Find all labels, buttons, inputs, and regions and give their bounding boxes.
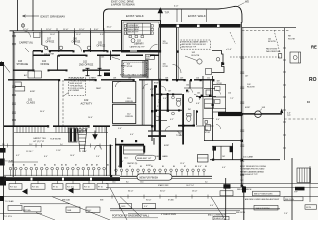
bar circle <box>255 111 262 118</box>
receptacle row 2 stems <box>116 172 204 176</box>
wall stub x154 <box>153 138 155 145</box>
svg-text:9'-0": 9'-0" <box>100 34 104 36</box>
svg-text:EXIST: EXIST <box>164 145 170 147</box>
svg-text:12'-4": 12'-4" <box>82 151 87 153</box>
room 114 west wall heavy <box>109 145 111 176</box>
svg-text:B9: B9 <box>205 166 207 168</box>
hall y88 <box>184 87 203 89</box>
grade line 1 <box>106 183 318 185</box>
svg-text:3'-6": 3'-6" <box>163 98 167 100</box>
door arcs center <box>161 86 166 91</box>
tapered ladder chute <box>78 128 88 152</box>
svg-text:SEE 2/A4: SEE 2/A4 <box>62 198 70 201</box>
wc hall y94 <box>156 93 182 95</box>
svg-text:6'-2": 6'-2" <box>16 155 20 157</box>
down arrow <box>93 131 97 140</box>
svg-text:A5: A5 <box>61 163 63 166</box>
east fence line <box>309 166 311 202</box>
toilet 2 <box>187 114 191 116</box>
svg-text:ACTIVITY: ACTIVITY <box>81 101 93 105</box>
svg-text:7'-0": 7'-0" <box>120 161 124 163</box>
closet box <box>124 146 145 154</box>
svg-text:PT 10: PT 10 <box>98 187 103 189</box>
svg-text:3-4: 3-4 <box>60 144 63 146</box>
svg-text:105: 105 <box>146 78 149 80</box>
provide/install dashed note box <box>69 78 86 96</box>
lower boxes left <box>8 206 22 211</box>
center block room 112 <box>113 104 136 123</box>
dashed line right of bar <box>284 118 316 120</box>
dashed leaders top right <box>230 32 236 44</box>
svg-text:OFFICE: OFFICE <box>72 41 81 44</box>
svg-text:B1: B1 <box>118 166 120 168</box>
to slab underline <box>8 161 38 163</box>
svg-text:REPAIR DAMAGED AREAS: REPAIR DAMAGED AREAS <box>240 170 265 173</box>
svg-text:6'-0": 6'-0" <box>130 134 134 136</box>
svg-text:A5: A5 <box>54 163 56 166</box>
svg-text:107: 107 <box>168 90 171 92</box>
svg-text:102: 102 <box>84 98 89 102</box>
door arc room147 <box>25 31 31 37</box>
svg-text:2'-6": 2'-6" <box>157 106 161 108</box>
svg-text:4" SLAB W/ WWM: 4" SLAB W/ WWM <box>161 213 176 216</box>
svg-text:B6: B6 <box>173 166 175 168</box>
hatched end of bar <box>218 112 242 116</box>
vertical wall x177 <box>176 28 178 80</box>
svg-text:105: 105 <box>101 57 104 59</box>
door leaf marks <box>25 48 29 52</box>
svg-text:SIM 104A: SIM 104A <box>23 209 32 212</box>
dim line full <box>0 196 318 198</box>
short tick wall top walk <box>206 10 208 23</box>
I-beam column 1 <box>86 68 90 75</box>
svg-text:± 5'-0": ± 5'-0" <box>226 49 232 51</box>
svg-text:CARPET (N): CARPET (N) <box>19 42 33 45</box>
svg-text:A9: A9 <box>96 163 98 166</box>
svg-text:6-0: 6-0 <box>205 181 208 183</box>
svg-text:B4: B4 <box>151 166 153 168</box>
room 114 north wall heavy <box>115 144 144 146</box>
svg-text:TABLES TYP: TABLES TYP <box>128 30 140 33</box>
mid bottom boxes <box>120 203 132 208</box>
room 114 inner bar 1 <box>119 146 122 168</box>
jamb blocks <box>159 83 161 85</box>
svg-text:SEE PLAN: SEE PLAN <box>285 198 294 201</box>
bottom-right vertical marker <box>243 186 245 220</box>
inside room outline near right wall <box>212 51 224 73</box>
svg-text:SEE NOTE: SEE NOTE <box>236 212 246 214</box>
corridor top wall heavy <box>33 50 159 52</box>
svg-text:W/ OWNER: W/ OWNER <box>70 90 80 92</box>
svg-text:T.O. FTG: T.O. FTG <box>4 216 12 218</box>
property line lower <box>291 158 293 220</box>
svg-text:EXIST. WALK: EXIST. WALK <box>126 14 144 18</box>
svg-text:EXIST RESILIENT FLOORING: EXIST RESILIENT FLOORING <box>240 166 267 168</box>
small box right room <box>206 69 212 75</box>
wall y159.7 <box>210 159 280 161</box>
svg-text:ROUTE: ROUTE <box>288 38 296 40</box>
svg-text:102: 102 <box>222 156 225 158</box>
svg-text:5'-0": 5'-0" <box>186 91 190 93</box>
svg-text:CARPET TILE: CARPET TILE <box>33 137 46 140</box>
heavy top wall right wing <box>159 24 241 28</box>
window band below south wall <box>14 132 108 134</box>
library door arc <box>150 44 158 52</box>
svg-text:EXIST. WALK: EXIST. WALK <box>188 14 206 18</box>
window ticks left wall upper <box>12 36 16 45</box>
svg-text:4x4 POST: 4x4 POST <box>110 55 119 57</box>
left margin blobs <box>0 62 4 66</box>
partition x203 <box>202 76 204 97</box>
svg-text:EXIST: EXIST <box>146 165 152 167</box>
wc wall x183 heavy <box>182 94 184 131</box>
svg-text:OFFICE: OFFICE <box>41 63 50 66</box>
left wing top wall (double) <box>10 30 122 32</box>
door bubbles corridor <box>44 46 48 50</box>
svg-text:EXIST. DRIVEWAY: EXIST. DRIVEWAY <box>41 14 66 18</box>
svg-text:PLT 10: PLT 10 <box>84 187 90 189</box>
svg-text:A8: A8 <box>86 163 88 166</box>
svg-text:11'-6": 11'-6" <box>63 29 69 31</box>
south wall of classrooms heavy <box>4 125 110 127</box>
svg-text:105D: 105D <box>121 206 126 208</box>
svg-text:101 LANE: 101 LANE <box>243 156 254 159</box>
svg-text:PORTION OF BASEMENT WALL: PORTION OF BASEMENT WALL <box>112 215 150 218</box>
svg-text:90'-0": 90'-0" <box>146 199 152 201</box>
svg-text:34'-0": 34'-0" <box>128 190 134 192</box>
svg-text:RESILIENT LVT: RESILIENT LVT <box>137 158 152 160</box>
svg-text:SIM: SIM <box>100 199 104 201</box>
svg-text:A4: A4 <box>44 163 46 166</box>
svg-text:3'-6": 3'-6" <box>198 166 202 168</box>
room 114 inner bar 2 <box>143 146 145 153</box>
leader 103 <box>259 109 262 112</box>
svg-text:4'-0": 4'-0" <box>150 89 154 91</box>
driveway line right <box>32 0 34 31</box>
svg-text:12'-4": 12'-4" <box>147 69 152 71</box>
svg-text:12'-0": 12'-0" <box>23 29 29 31</box>
right wing inner partitions <box>212 76 214 141</box>
svg-text:CLASS: CLASS <box>27 101 36 105</box>
left margin border <box>2 64 4 220</box>
svg-text:4'-0": 4'-0" <box>222 167 226 169</box>
grid ticks on top wall <box>41 28 43 31</box>
svg-text:RO: RO <box>309 77 317 83</box>
door arc office107 <box>42 45 49 52</box>
svg-text:EXIST. CONC. DRIVE: EXIST. CONC. DRIVE <box>111 2 134 4</box>
svg-text:NOTE: NOTE <box>306 207 312 209</box>
small lane box right <box>198 155 209 163</box>
svg-text:LVT (P) TYP: LVT (P) TYP <box>33 141 45 143</box>
svg-text:12'-0": 12'-0" <box>180 163 185 165</box>
svg-text:A2: A2 <box>23 163 25 166</box>
room 114 second west wall <box>115 138 117 176</box>
left exterior wall (double) <box>12 31 14 177</box>
wall y131 <box>148 130 183 132</box>
library chairs <box>124 25 126 28</box>
top wall thin continuation to right edge <box>242 27 296 29</box>
svg-text:6'-8": 6'-8" <box>196 103 200 105</box>
svg-text:12'-0": 12'-0" <box>79 29 85 31</box>
svg-text:SCALE 1/8: SCALE 1/8 <box>214 217 223 220</box>
interior partitions of top-left rooms <box>41 31 43 45</box>
svg-text:ROUTE: ROUTE <box>192 55 200 57</box>
svg-text:4'-0": 4'-0" <box>174 6 179 8</box>
svg-text:OFFICE: OFFICE <box>46 41 55 44</box>
svg-text:STOR: STOR <box>217 83 223 85</box>
svg-text:THROUGHOUT TYP: THROUGHOUT TYP <box>240 174 258 176</box>
svg-text:STOR: STOR <box>127 66 133 68</box>
receptacle row 1 circles <box>9 167 105 170</box>
window ticks left wall lower <box>12 86 16 121</box>
svg-text:PLT 107: PLT 107 <box>67 187 74 189</box>
svg-text:16'-0": 16'-0" <box>107 27 112 29</box>
svg-text:5'-4": 5'-4" <box>96 156 100 158</box>
svg-text:SEE A FT MECH: SEE A FT MECH <box>237 188 252 191</box>
svg-text:105: 105 <box>197 92 200 94</box>
svg-text:16'-0": 16'-0" <box>192 190 198 192</box>
svg-text:2'-6": 2'-6" <box>284 213 288 215</box>
svg-text:EXIST: EXIST <box>154 83 160 85</box>
lower wall y70 heavy <box>13 69 110 71</box>
svg-text:108: 108 <box>113 78 116 80</box>
new flooring bubble <box>137 174 172 180</box>
mid vertical marker <box>225 178 227 220</box>
walk outer edge with rounded corners <box>104 6 243 31</box>
section cut bar right <box>218 113 282 115</box>
svg-text:104: 104 <box>186 85 189 87</box>
svg-text:A6: A6 <box>65 163 67 166</box>
svg-text:B3: B3 <box>140 166 142 168</box>
svg-text:2-6: 2-6 <box>2 144 5 146</box>
striped box lower right <box>297 168 311 183</box>
driveway monument circle <box>21 24 24 27</box>
left margin arrowhead <box>22 189 28 195</box>
toilet 1 <box>176 99 180 101</box>
extra center walls <box>182 131 184 145</box>
dashed diagonal leader right <box>274 30 280 54</box>
svg-text:LIBRARY: LIBRARY <box>134 42 144 45</box>
corridor west wall <box>32 51 34 70</box>
svg-text:PLT 104: PLT 104 <box>10 187 17 189</box>
receptacle row 2 circles <box>115 169 206 172</box>
svg-text:STOR: STOR <box>205 132 211 134</box>
svg-text:A8: A8 <box>91 163 93 166</box>
svg-text:104C: 104C <box>87 210 92 212</box>
svg-text:4'-0": 4'-0" <box>210 205 214 207</box>
svg-text:OFFICE: OFFICE <box>125 101 134 103</box>
grade line 2 <box>106 186 318 188</box>
south heavy retaining band <box>4 174 120 176</box>
svg-text:TILE WORK: TILE WORK <box>50 139 62 141</box>
driveway arrow <box>23 15 40 17</box>
svg-text:4R@7: 4R@7 <box>78 132 83 134</box>
walk joint ticks <box>176 10 178 23</box>
svg-text:EXIST CONC WALK TO REMAIN: EXIST CONC WALK TO REMAIN <box>120 73 148 76</box>
resilient bubble <box>136 155 156 160</box>
door arc room102 <box>173 65 182 74</box>
svg-text:110: 110 <box>228 92 231 94</box>
A/C unit box <box>28 71 42 78</box>
bar arrow <box>280 109 283 114</box>
svg-text:8'-0": 8'-0" <box>44 156 48 158</box>
svg-text:30'-0": 30'-0" <box>40 111 45 113</box>
note boxes row under band <box>9 184 22 190</box>
class wing partition <box>58 80 60 126</box>
second arrowhead right <box>68 188 74 194</box>
svg-text:(TYP): (TYP) <box>89 80 94 82</box>
svg-text:3'-0": 3'-0" <box>216 119 220 121</box>
svg-text:AND RM 103 TYP: AND RM 103 TYP <box>182 45 197 48</box>
svg-text:TO REMAIN PROTECT AND: TO REMAIN PROTECT AND <box>240 168 265 171</box>
door arc office106 <box>75 45 82 52</box>
svg-text:10-6: 10-6 <box>112 181 115 183</box>
svg-text:B2: B2 <box>129 166 131 168</box>
svg-text:A7: A7 <box>75 163 77 166</box>
svg-text:SEE FLR FINISH: SEE FLR FINISH <box>256 208 271 210</box>
svg-text:EXIST: EXIST <box>30 91 36 93</box>
driveway line left <box>17 0 19 31</box>
svg-text:A1: A1 <box>12 163 14 166</box>
lower lines <box>20 203 70 205</box>
svg-text:7'-2": 7'-2" <box>230 98 234 100</box>
svg-text:1'-10": 1'-10" <box>56 150 61 152</box>
svg-text:UNIT: UNIT <box>146 58 150 60</box>
svg-text:STORAGE: STORAGE <box>17 63 29 66</box>
receptacle row 1 stems <box>11 170 105 176</box>
svg-text:10'-0": 10'-0" <box>50 34 55 36</box>
wc hall y110 <box>156 109 182 111</box>
svg-text:STOR: STOR <box>163 66 169 68</box>
section dim line upper <box>0 145 113 147</box>
svg-text:110: 110 <box>196 78 199 80</box>
svg-text:8-0: 8-0 <box>126 181 129 183</box>
door circle right corridor <box>197 59 202 64</box>
north/typ arrow solid <box>158 8 163 17</box>
closet walls right center <box>202 97 204 127</box>
svg-text:SEE 2 FT MECH DWG: SEE 2 FT MECH DWG <box>254 194 273 196</box>
svg-text:T.O. SLAB: T.O. SLAB <box>5 200 15 203</box>
svg-text:AND 2 CONNECTOR: AND 2 CONNECTOR <box>208 214 226 217</box>
svg-text:B5: B5 <box>162 166 164 168</box>
lav circles <box>172 96 175 99</box>
band continuation thin double <box>120 175 212 177</box>
mid wall y80 heavy across plan <box>8 79 212 81</box>
svg-text:9'-6": 9'-6" <box>94 29 99 31</box>
svg-text:11-2: 11-2 <box>29 144 32 146</box>
wc wall x168 heavy <box>167 94 169 110</box>
storage partitions below corridor <box>57 55 59 70</box>
right exterior wall (double) <box>240 22 242 186</box>
left margin diagonal leader <box>1 61 10 73</box>
center block east partition <box>116 82 122 88</box>
svg-text:9'-6": 9'-6" <box>118 128 122 130</box>
svg-text:OFFICE: OFFICE <box>97 45 106 48</box>
svg-text:A3: A3 <box>34 163 36 166</box>
svg-text:30'-0": 30'-0" <box>160 190 166 192</box>
bottom left extra lines <box>0 213 42 215</box>
dashed note box library removal <box>181 40 211 49</box>
svg-text:STOR: STOR <box>163 43 169 45</box>
stair block south classrooms <box>69 128 78 142</box>
stair circles <box>79 128 82 131</box>
svg-text:111: 111 <box>207 78 210 80</box>
svg-text:A0: A0 <box>107 163 109 166</box>
svg-text:2ND OFFICE: 2ND OFFICE <box>79 63 94 66</box>
window ticks right wall <box>240 57 244 176</box>
leader diagonals <box>52 197 110 220</box>
svg-text:10'-6": 10'-6" <box>70 155 75 157</box>
hall y96.5 right <box>196 96 216 98</box>
svg-text:TOILET: TOILET <box>176 135 184 137</box>
svg-text:12'-0": 12'-0" <box>46 29 52 31</box>
svg-text:104 CORR: 104 CORR <box>44 54 55 56</box>
jamb pepper dots <box>41 50 43 52</box>
I-beam column 2 <box>98 68 102 75</box>
storage room with hatched floor below library <box>110 51 112 60</box>
svg-text:11'-0": 11'-0" <box>76 34 81 36</box>
wc wall y126 heavy <box>178 125 195 127</box>
svg-text:CARPET (N): CARPET (N) <box>127 162 138 165</box>
svg-text:PAINT: PAINT <box>96 87 102 90</box>
property line east <box>284 28 286 160</box>
dashed partition <box>62 80 64 126</box>
svg-text:T.O. SLAB: T.O. SLAB <box>5 159 15 162</box>
svg-text:PLT 105: PLT 105 <box>32 187 39 189</box>
svg-text:ROUTE: ROUTE <box>247 87 255 89</box>
svg-text:4'-2": 4'-2" <box>170 119 174 121</box>
svg-text:STAIR 2 RSR: STAIR 2 RSR <box>158 184 169 187</box>
svg-text:24'-6": 24'-6" <box>88 117 93 119</box>
library outer walls <box>122 21 161 53</box>
svg-text:9'-0": 9'-0" <box>144 206 148 208</box>
svg-text:PT 10: PT 10 <box>53 187 58 189</box>
svg-text:106: 106 <box>128 78 131 80</box>
library table with text <box>127 23 151 35</box>
svg-text:LANE: LANE <box>162 155 168 158</box>
panel box 2 <box>290 52 301 63</box>
svg-text:8"CMU: 8"CMU <box>168 200 174 202</box>
svg-text:EXIST: EXIST <box>121 65 127 67</box>
svg-text:WALL REMOVED: WALL REMOVED <box>266 50 281 53</box>
svg-text:109: 109 <box>180 78 183 80</box>
right note boxes <box>253 191 281 196</box>
window AC boxes on left wall <box>15 82 21 87</box>
svg-text:NEW FLR FINISH: NEW FLR FINISH <box>140 178 159 180</box>
dim ticks <box>112 195 208 199</box>
svg-text:EXIST: EXIST <box>245 107 251 109</box>
stems to note boxes <box>16 181 103 184</box>
svg-text:B7: B7 <box>184 166 186 168</box>
svg-text:WD: WD <box>245 1 249 4</box>
svg-text:CARPET (N) TYP: CARPET (N) TYP <box>130 46 146 49</box>
svg-text:B8: B8 <box>195 166 197 168</box>
svg-text:TYP.: TYP. <box>165 11 170 14</box>
svg-text:12-6: 12-6 <box>140 181 143 183</box>
small rooms right-bottom partitions <box>204 140 241 142</box>
svg-text:& APRON TO REMAIN: & APRON TO REMAIN <box>111 3 135 6</box>
wall y136 heavy stub <box>148 135 166 137</box>
library room tag circle <box>131 39 135 43</box>
svg-text:10'-6" 5'-0": 10'-6" 5'-0" <box>186 185 195 187</box>
svg-text:AND NEW LOWER LANDING ABUTMENT: AND NEW LOWER LANDING ABUTMENT <box>245 198 280 201</box>
svg-text:ROUTE: ROUTE <box>268 41 276 43</box>
center block room 110 <box>113 82 136 103</box>
major vertical wall x160 <box>159 9 161 22</box>
long dashed line to patch note <box>230 56 280 58</box>
corridor bottom wall heavy <box>33 54 159 56</box>
partition x194 <box>193 110 195 126</box>
